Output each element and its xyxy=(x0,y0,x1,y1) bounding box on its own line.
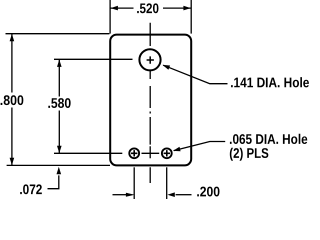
dimension line .520 xyxy=(111,7,192,9)
leader .072 xyxy=(48,175,59,188)
extension line .520 right xyxy=(190,0,192,34)
arrowhead .065 xyxy=(173,147,181,152)
horizontal centerline through small holes xyxy=(54,152,159,154)
arrowhead .200 right xyxy=(167,192,174,197)
hole H1 (.141 DIA) xyxy=(139,49,160,70)
svg-text:.580: .580 xyxy=(47,95,71,111)
arrowhead .800 bottom xyxy=(10,158,15,165)
plate outline xyxy=(110,35,191,166)
center mark of hole H3 xyxy=(164,150,170,156)
arrowhead .520 left xyxy=(111,6,118,11)
extension line .200 right xyxy=(166,167,168,199)
center mark of hole H1 xyxy=(147,56,154,63)
svg-text:.520: .520 xyxy=(136,0,159,16)
svg-text:.141 DIA. Hole: .141 DIA. Hole xyxy=(230,74,309,90)
extension line .800 bottom xyxy=(7,164,110,166)
extension line .580 top xyxy=(54,58,133,60)
arrowhead .800 top xyxy=(10,34,15,41)
arrowhead .520 right xyxy=(183,6,190,11)
svg-text:.072: .072 xyxy=(19,181,42,197)
extension line .520 left xyxy=(109,0,111,34)
hole H3 (.065 DIA, right) xyxy=(162,148,172,158)
svg-text:.200: .200 xyxy=(196,183,220,199)
center mark of hole H2 xyxy=(131,150,137,156)
dimension line .200 left xyxy=(113,194,127,196)
leader .141 xyxy=(163,65,227,84)
leader .065 xyxy=(174,142,225,151)
dimension line .800 xyxy=(11,34,13,166)
dimension line .200 right xyxy=(176,194,192,196)
vertical centerline xyxy=(149,23,151,183)
arrowhead .580 top xyxy=(57,60,62,67)
arrowhead .580 bottom xyxy=(57,146,62,153)
svg-text:(2) PLS: (2) PLS xyxy=(229,145,269,161)
arrowhead .200 left xyxy=(126,193,135,197)
dimension line .580 xyxy=(58,59,60,153)
svg-text:.800: .800 xyxy=(0,92,24,108)
arrowhead .072 xyxy=(57,167,62,174)
arrowhead .141 xyxy=(162,65,170,70)
hole H2 (.065 DIA, left) xyxy=(129,148,139,158)
extension line .200 left xyxy=(133,167,135,199)
extension line .800 top xyxy=(6,33,110,35)
